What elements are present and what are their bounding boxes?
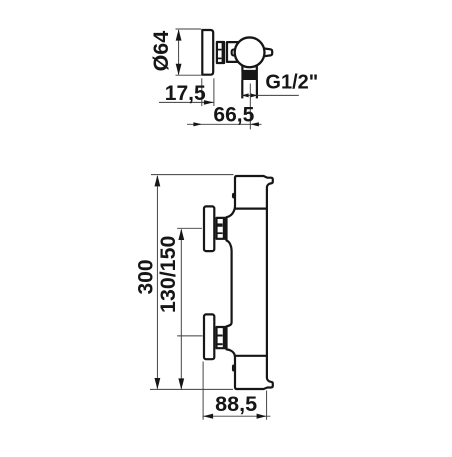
extension line upper connection (177, 227, 202, 229)
pipe center extension line (249, 84, 251, 130)
extension line escutcheon left (201, 78, 203, 106)
dimension line 17,5 (159, 101, 214, 103)
arrow 88,5 right (257, 414, 267, 419)
extension line lower connection (177, 335, 202, 337)
right tab on knob (264, 48, 273, 56)
svg-text:300: 300 (134, 259, 157, 294)
outlet pipe right wall (256, 80, 258, 98)
dimension line 300 (156, 176, 158, 389)
extension line 88,5 right (266, 391, 268, 420)
svg-text:130/150: 130/150 (156, 236, 180, 313)
lower connector bracket (217, 327, 226, 348)
svg-text:Ø64: Ø64 (149, 31, 173, 72)
black seal band (241, 71, 258, 80)
arrow 130/150 down (178, 378, 184, 389)
top cap seam (235, 208, 267, 210)
outlet pipe left wall (241, 80, 243, 98)
svg-text:17,5: 17,5 (165, 82, 206, 105)
dimension line 66,5 (187, 123, 262, 125)
svg-text:G1/2": G1/2" (265, 71, 318, 93)
clip bump lower on bar left edge (233, 366, 234, 371)
upper connector bracket (217, 218, 226, 239)
arrow down D64 (176, 64, 182, 75)
G1/2 leader line (242, 94, 299, 96)
valve body (top view) (227, 42, 251, 62)
arrow 300 down (155, 378, 161, 389)
dimension line 88,5 (203, 415, 271, 417)
left tab on knob (232, 50, 238, 56)
arrow 66,5 right (250, 122, 259, 126)
extension line top (300) (151, 174, 234, 176)
bottom cap seam (235, 355, 267, 357)
G1/2 arrow right (251, 93, 258, 97)
wall escutcheon (top view) (202, 30, 213, 75)
arrow up D64 (176, 29, 182, 40)
extension line 88,5 left (202, 362, 204, 420)
mixer bar body outline (227, 176, 273, 389)
knob circle (235, 37, 265, 67)
extension line bottom for D64 (176, 74, 202, 76)
arrow 130/150 up (178, 229, 184, 240)
G1/2 arrow left (242, 93, 249, 97)
extension line top for D64 (176, 28, 202, 30)
arrow 300 up (155, 175, 161, 186)
arrow 17,5 (204, 100, 214, 105)
arrow 66,5 left (193, 122, 202, 126)
dimension line 130/150 (180, 230, 182, 389)
extension line escutcheon right (213, 78, 215, 106)
outlet neck below knob (242, 62, 256, 71)
upper escutcheon (front view) (204, 206, 214, 251)
connector bracket (top view) (217, 42, 224, 63)
lower escutcheon (front view) (204, 314, 214, 359)
arrow 88,5 left (203, 414, 213, 419)
clip bump upper on bar left edge (233, 194, 234, 198)
svg-text:66,5: 66,5 (213, 104, 254, 127)
dimension line D64 (178, 30, 180, 74)
svg-text:88,5: 88,5 (215, 391, 257, 416)
extension line bottom (300) (150, 388, 233, 390)
